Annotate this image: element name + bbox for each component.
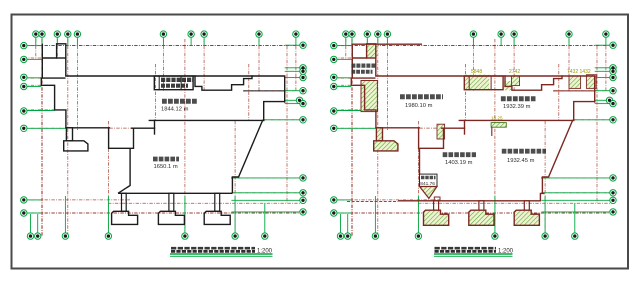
column pier bases bottom hatched (424, 210, 540, 225)
svg-text:5848: 5848 (471, 69, 482, 75)
text: lower unit B label (443, 155, 476, 167)
wall: left plan bottom wall (118, 148, 232, 193)
hatch: protrusion box (367, 44, 378, 58)
hatch: corridor small 2 (512, 76, 520, 86)
bubbles: left plan (21, 31, 307, 239)
wall: funnel shaft (419, 148, 421, 174)
wall: small box at V point (434, 197, 440, 201)
leaders: left plan (27, 37, 300, 233)
hatch: corridor small 4 (586, 75, 596, 89)
column pier stems bottom (122, 193, 220, 211)
grid: left plan axes (24, 39, 306, 236)
shaft: funnel label box (420, 174, 438, 186)
hatch: stair block left (361, 81, 377, 112)
column pier stems bottom (short) (434, 201, 530, 210)
grid: right plan axes (334, 39, 616, 236)
text: unit B label (400, 97, 443, 109)
column pier bases bottom (112, 211, 231, 224)
leaders: right plan (337, 37, 610, 233)
hatch: corridor small 3 (569, 76, 581, 89)
hatch: column below mid wall (437, 124, 445, 139)
hatch: pier P1 (374, 141, 398, 151)
svg-text:2742: 2742 (509, 69, 520, 75)
svg-text:1932.45 m: 1932.45 m (507, 158, 535, 164)
svg-text:1980.10 m: 1980.10 m (405, 103, 433, 109)
hatch: corridor room (464, 75, 489, 91)
text: 18.25 label with hatched box (491, 116, 506, 136)
grid axis dashed stub left of bottom wall (347, 201, 398, 203)
svg-text:1650.1 m: 1650.1 m (154, 164, 178, 170)
svg-text:18.25: 18.25 (491, 116, 503, 121)
outline: left plan walls (black) (41, 44, 284, 177)
wall: right plan top wall solid (351, 43, 422, 45)
svg-text:7432 1432: 7432 1432 (567, 69, 591, 75)
text: stair room tiny label (161, 80, 193, 86)
hatch: corridor small 1 (504, 81, 511, 90)
text: lower unit D label (502, 151, 546, 164)
outline: right plan walls (maroon) (351, 44, 594, 177)
text: top-left unit label (351, 66, 376, 72)
wall: right plan bottom wall (398, 177, 545, 201)
svg-text:1932.39 m: 1932.39 m (503, 104, 531, 110)
text: unit C label (501, 99, 536, 110)
svg-text:1403.19 m: 1403.19 m (445, 160, 473, 166)
text: fire zone A label (161, 101, 198, 112)
svg-text:1844.12 m: 1844.12 m (161, 107, 189, 113)
text: civil defence unit label (153, 159, 179, 170)
title: left plan caption (170, 248, 273, 256)
shaft: funnel hatched V (420, 187, 438, 199)
bubbles: right plan (331, 31, 617, 239)
title: right plan caption (434, 248, 514, 256)
